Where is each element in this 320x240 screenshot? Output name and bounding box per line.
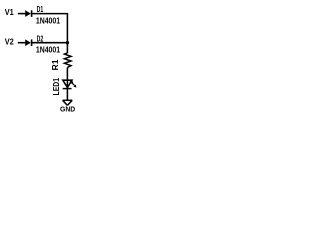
svg-text:D1: D1 [37, 4, 44, 14]
wire V1 to D1 anode [18, 13, 26, 15]
junction dot (D2 wire joins bus) [66, 41, 69, 44]
svg-text:1N4001: 1N4001 [36, 46, 61, 55]
wire V2 to D2 anode [18, 42, 26, 44]
svg-text:LED1: LED1 [52, 77, 61, 95]
diode D2 [25, 39, 31, 46]
svg-text:V1: V1 [5, 7, 14, 17]
LED LED1 [63, 80, 77, 88]
wire D2 cathode to bus [32, 42, 68, 44]
svg-text:GND: GND [60, 104, 75, 113]
svg-text:R1: R1 [51, 59, 60, 71]
svg-text:1N4001: 1N4001 [36, 17, 61, 26]
diode D1 [25, 10, 31, 17]
svg-text:V2: V2 [5, 36, 14, 46]
ground [63, 100, 73, 105]
wire LED cathode to ground [66, 89, 68, 101]
svg-text:D2: D2 [37, 33, 44, 43]
wire resistor to LED [66, 67, 68, 88]
resistor R1 [64, 53, 71, 68]
wire bus: D1 corner down to resistor [66, 13, 68, 53]
wire D1 cathode to bus [32, 13, 68, 15]
